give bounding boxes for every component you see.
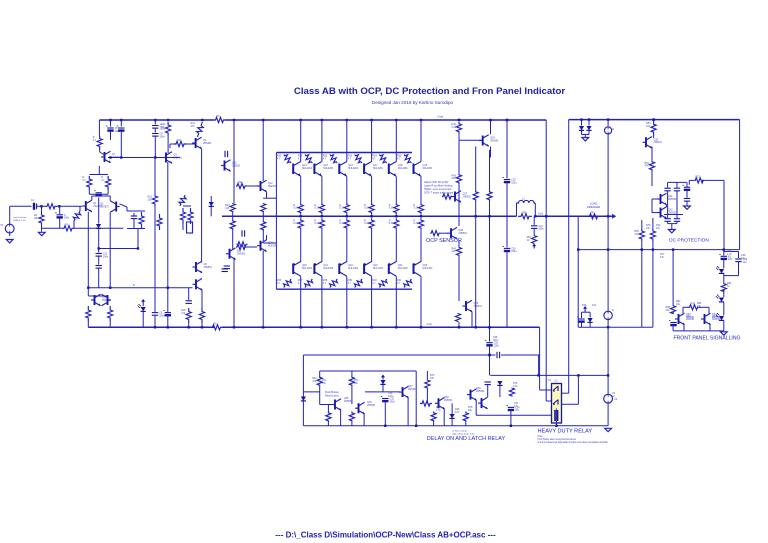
wire xyxy=(723,274,725,283)
junction at base line xyxy=(154,156,156,158)
voltage source V3 xyxy=(5,224,14,233)
wire xyxy=(651,171,653,187)
wire Q29 emitter to rail xyxy=(471,312,473,328)
resistor R58 xyxy=(666,305,676,314)
svg-text:DELAY ON AND LATCH RELAY: DELAY ON AND LATCH RELAY xyxy=(427,436,506,442)
wire R4 down xyxy=(73,221,75,228)
junction xyxy=(577,374,579,376)
svg-text:R59: R59 xyxy=(691,302,696,305)
wire xyxy=(487,385,489,397)
junction mid rail col2 xyxy=(321,215,323,217)
wire xyxy=(672,312,674,314)
svg-text:SINE(0 1 1k): SINE(0 1 1k) xyxy=(13,220,26,222)
wire col6 lower xyxy=(420,230,422,262)
capacitor C33 xyxy=(485,382,491,385)
capacitor C4 across pair xyxy=(94,191,102,196)
svg-text:2N5551: 2N5551 xyxy=(668,198,677,201)
wire tail stem xyxy=(98,166,100,175)
wire long net y355 left xyxy=(303,354,495,356)
resistor R24 xyxy=(230,220,235,229)
junction rail Q26 xyxy=(489,119,491,121)
wire into Q9 base xyxy=(191,287,193,289)
wire speaker node down xyxy=(577,216,579,249)
wire xyxy=(667,221,669,223)
wire relay coil feed xyxy=(476,414,552,416)
wire xyxy=(738,252,740,259)
wire DC box right edge xyxy=(739,120,741,250)
wire col2 lower xyxy=(321,230,323,262)
ground arrow cluster xyxy=(583,306,587,311)
wire x608 lower xyxy=(607,216,609,249)
LED D8 red xyxy=(716,266,724,273)
svg-text:100u: 100u xyxy=(511,181,517,184)
resistor Re5 top emitter xyxy=(389,203,399,215)
transistor Q6 mirror right xyxy=(101,294,111,306)
svg-text:12V: 12V xyxy=(728,258,733,261)
capacitor C28 latch xyxy=(669,321,677,326)
resistor R48 xyxy=(473,191,478,201)
transistor Q34 latch right xyxy=(701,313,721,325)
svg-text:R50: R50 xyxy=(522,211,527,214)
wire right drop of top rail lower xyxy=(545,216,547,401)
LED D10 xyxy=(716,313,724,320)
wire xyxy=(451,419,453,426)
diode D5 clamp xyxy=(586,126,591,130)
svg-text:2N5401: 2N5401 xyxy=(654,141,663,144)
LED D9 green xyxy=(716,295,724,302)
wire xyxy=(458,240,460,246)
junction rail R10 xyxy=(167,119,169,121)
wire col6 to mid rail xyxy=(420,214,422,216)
transistor Q12 driver NPN xyxy=(257,180,277,192)
junction xyxy=(154,326,156,328)
buzzer B1 element xyxy=(719,254,732,261)
junction xyxy=(458,119,460,121)
capacitor C25 xyxy=(664,219,670,222)
wire xyxy=(688,180,690,184)
transistor QN6 output NPN xyxy=(414,162,434,177)
svg-text:0.33: 0.33 xyxy=(414,207,419,210)
svg-text:Slight delay begin relay: Slight delay begin relay xyxy=(452,432,476,435)
wire C29 join xyxy=(724,275,739,277)
resistor Rb1 top base xyxy=(277,153,293,165)
junction xyxy=(137,247,139,249)
svg-text:0.33: 0.33 xyxy=(314,222,319,225)
wire xyxy=(327,405,329,412)
transistor QN2 output NPN xyxy=(314,162,334,177)
transistor Q33 latch left xyxy=(675,313,695,325)
wire to bottom rail xyxy=(458,322,460,327)
resistor R27 xyxy=(261,203,266,212)
wire col2 collector xyxy=(321,120,323,162)
wire R16 to rail xyxy=(87,322,89,327)
wire col6 collector xyxy=(420,120,422,162)
resistor Re5b bottom emitter xyxy=(389,218,399,230)
wire xyxy=(641,241,643,250)
transistor Q9 VAS darlington lower xyxy=(193,279,203,291)
junction bottom rail col3 xyxy=(346,326,348,328)
wire xyxy=(581,312,583,318)
svg-text:OCP: 7 amps maks output: OCP: 7 amps maks output xyxy=(424,192,454,195)
junction top rail col1 xyxy=(300,119,302,121)
wire V4 bottom xyxy=(607,403,609,426)
wire horizontal net lower xyxy=(88,287,190,289)
svg-text:Low Distortion: Low Distortion xyxy=(13,216,28,219)
resistor Rb5b bottom base xyxy=(372,277,388,289)
wire xyxy=(351,422,353,426)
wire right drop of top rail upper xyxy=(545,120,547,216)
wire D1 down xyxy=(98,229,100,249)
ground below R2 xyxy=(38,232,45,235)
wire into Q7 xyxy=(100,152,105,155)
wire C1 to R1 xyxy=(36,205,45,207)
wire inner box right xyxy=(723,180,725,249)
ground V4 xyxy=(605,428,612,431)
capacitor C26 xyxy=(674,219,680,222)
wire Q4 emitter down xyxy=(201,149,203,186)
wire to relay pin1 xyxy=(539,355,541,390)
wire x608 mid xyxy=(607,134,609,216)
wire top rail right segment xyxy=(225,119,546,121)
wire xyxy=(723,259,725,269)
svg-text:Designed Jan 2016 by Kartino S: Designed Jan 2016 by Kartino Surodipo xyxy=(372,100,454,105)
wire Q7 base rail xyxy=(108,157,180,159)
svg-text:R57: R57 xyxy=(695,175,700,178)
resistor R17 mirror xyxy=(108,306,113,322)
junction xyxy=(475,326,477,328)
wire bottom rail right xyxy=(222,326,540,328)
wire cap cluster top xyxy=(668,181,687,183)
svg-text:0.33: 0.33 xyxy=(293,222,298,225)
transistor QN4 output NPN xyxy=(364,162,384,177)
wire Q3 emitter column xyxy=(167,162,169,312)
wire x507 lower xyxy=(506,251,508,327)
capacitor C18 xyxy=(222,269,228,272)
wire bottom rail left xyxy=(88,326,214,328)
wire to Q26 base xyxy=(459,139,483,141)
resistor Rb3 top base xyxy=(323,153,339,165)
wire x459 down xyxy=(458,140,460,173)
wire delay box left edge xyxy=(302,355,304,426)
svg-text:MJL1302: MJL1302 xyxy=(423,267,434,270)
transistor Q38 delay xyxy=(435,398,445,410)
wire pair emitters xyxy=(666,205,668,207)
ground D6 xyxy=(684,206,691,209)
junction rail x234 xyxy=(233,119,235,121)
wire xyxy=(188,288,190,300)
junction rail cap1 xyxy=(109,119,111,121)
capacitor C10 xyxy=(163,311,171,316)
wire DC box left edge xyxy=(568,120,570,394)
capacitor C23 xyxy=(674,188,680,191)
wire col6 emitter down xyxy=(420,176,422,203)
junction xyxy=(545,215,547,217)
wire cluster top xyxy=(582,311,591,313)
capacitor C29 xyxy=(735,258,747,264)
resistor R52 speaker xyxy=(587,211,600,219)
junction xyxy=(262,326,264,328)
current source I2 xyxy=(604,311,612,319)
ground arrow delay xyxy=(381,375,385,380)
resistor Re3 top emitter xyxy=(339,203,349,215)
junction xyxy=(652,248,654,250)
svg-text:4.7k: 4.7k xyxy=(436,409,441,412)
transistor QP5 output PNP xyxy=(389,262,409,277)
svg-text:2N5551: 2N5551 xyxy=(459,232,468,235)
wire Q9 emitter down xyxy=(201,290,203,309)
svg-text:470: 470 xyxy=(181,312,186,315)
wire feedback lower xyxy=(154,206,156,313)
transistor Q26 xyxy=(479,135,499,147)
wire emitter join xyxy=(89,193,108,195)
wire Q3 collector xyxy=(169,144,171,148)
wire feedback node down xyxy=(154,158,156,195)
junction bottom rail col5 xyxy=(395,326,397,328)
resistor R15 tail xyxy=(139,212,144,228)
resistor R18 xyxy=(181,308,191,323)
capacitor C31 xyxy=(485,341,500,348)
capacitor C32 delay xyxy=(381,397,396,404)
junction mid rail col6 xyxy=(420,215,422,217)
transistor Q29 xyxy=(463,300,483,312)
junction xyxy=(510,425,512,427)
svg-text:2N5551: 2N5551 xyxy=(490,139,499,142)
capacitor C19 xyxy=(502,178,517,185)
wire Q2 collector up xyxy=(109,196,111,201)
wire down to R2 xyxy=(41,206,43,213)
resistor R68 xyxy=(431,412,436,423)
junction top rail col4 xyxy=(370,119,372,121)
junction base line xyxy=(120,156,122,158)
wire xyxy=(319,371,321,376)
wire col3 lower xyxy=(346,230,348,262)
wire Q26 emitter down xyxy=(490,147,492,158)
resistor R7 degeneration left xyxy=(82,176,92,190)
transistor QN1 output NPN xyxy=(293,162,313,177)
wire xyxy=(723,303,725,316)
wire col5 emitter down xyxy=(395,176,397,203)
junction top rail col6 xyxy=(420,119,422,121)
wire xyxy=(653,136,655,139)
wire x490 lower xyxy=(489,201,491,328)
svg-text:220: 220 xyxy=(452,177,457,180)
svg-text:2N5401: 2N5401 xyxy=(203,142,212,145)
resistor Re4 top emitter xyxy=(364,203,374,215)
inductor L1 output xyxy=(517,200,536,203)
wire L left leg xyxy=(516,203,518,216)
wire x475 upper xyxy=(475,147,477,192)
capacitor C9 feedback xyxy=(152,312,165,318)
wire to tail resistor bottom xyxy=(99,248,138,250)
svg-text:MJL1302: MJL1302 xyxy=(398,267,409,270)
wire cap cluster mid xyxy=(664,214,683,216)
wire to relay pin4 xyxy=(577,375,579,404)
resistor Rb6b bottom base xyxy=(397,277,413,289)
wire col3 collector xyxy=(346,120,348,162)
junction xyxy=(109,287,111,289)
transistor QP1 output PNP xyxy=(293,262,313,277)
svg-text:2N5551: 2N5551 xyxy=(204,266,213,269)
wire xyxy=(667,215,669,219)
diode D3 bias xyxy=(209,202,214,206)
wire xyxy=(676,182,678,187)
svg-text:4.7k: 4.7k xyxy=(727,253,732,256)
wire mirror tie xyxy=(88,295,107,297)
wire col1 to mid rail xyxy=(300,214,302,216)
capacitor C16 xyxy=(224,266,230,269)
junction rail x263 xyxy=(262,119,264,121)
wire xyxy=(465,422,467,426)
wire x507 mid xyxy=(506,182,508,247)
wire rail to C5 xyxy=(110,120,112,127)
wire drop x263 xyxy=(262,120,264,181)
svg-text:Out1: Out1 xyxy=(538,213,544,216)
wire V3 to ground xyxy=(9,233,11,236)
resistor R64 xyxy=(326,412,331,423)
wire C6 to base line xyxy=(120,131,122,158)
svg-text:100n: 100n xyxy=(160,135,166,138)
wire xyxy=(327,422,329,426)
wire ground net right xyxy=(74,227,123,229)
wire xyxy=(682,307,684,313)
resistor R4 base shunt xyxy=(72,210,82,223)
capacitor C5 rail xyxy=(106,126,121,133)
wire D3 to mid rail xyxy=(210,207,212,216)
wire to relay pin xyxy=(546,400,551,402)
svg-text:2N5401: 2N5401 xyxy=(474,305,483,308)
wire VAS net top xyxy=(183,205,191,207)
capacitor C12 xyxy=(96,266,102,269)
transistor Q10 xyxy=(221,160,241,172)
wire L right leg xyxy=(534,203,536,216)
wire col3 emitter down xyxy=(346,176,348,203)
ground zobel xyxy=(532,244,536,249)
wire to I1 xyxy=(607,120,609,126)
junction xyxy=(458,326,460,328)
resistor R28 xyxy=(261,220,266,231)
svg-text:0.33: 0.33 xyxy=(339,207,344,210)
wire collector join xyxy=(92,195,110,197)
wire tail to node xyxy=(137,229,139,249)
resistor R43 xyxy=(452,173,462,184)
resistor R11 to Q2 stage xyxy=(174,139,186,147)
wire col1 collector xyxy=(300,120,302,162)
transistor Q3 xyxy=(163,152,183,164)
transistor Q13 driver PNP xyxy=(257,240,277,252)
wire xyxy=(232,228,234,249)
wire xyxy=(641,220,643,229)
wire Q33 emitter xyxy=(683,325,685,331)
wire xyxy=(689,179,694,181)
svg-text:10u: 10u xyxy=(741,257,746,260)
svg-text:470: 470 xyxy=(191,125,196,128)
wire xyxy=(683,306,687,308)
diode D4 clamp xyxy=(579,126,584,130)
wire xyxy=(351,371,353,376)
junction xyxy=(167,326,169,328)
capacitor C30 on wire xyxy=(497,352,500,358)
svg-text:FRONT PANEL SIGNALLING: FRONT PANEL SIGNALLING xyxy=(674,336,741,342)
wire Q2 emitter to tail xyxy=(120,204,128,207)
svg-text:Q: Slow Charge: Q: Slow Charge xyxy=(452,430,468,433)
relay U1 heavy duty (yellow) xyxy=(552,384,562,424)
wire xyxy=(589,312,591,317)
svg-text:SPEAKER: SPEAKER xyxy=(587,205,600,209)
capacitor C22 xyxy=(664,188,670,191)
wire R17 to rail xyxy=(109,322,111,327)
capacitor C13 tail xyxy=(131,216,137,219)
transistor QN3 output NPN xyxy=(339,162,359,177)
svg-text:100u: 100u xyxy=(390,400,396,403)
junction mid rail x490 xyxy=(488,215,490,217)
resistor R12 from rail xyxy=(191,121,205,138)
wire R8 down xyxy=(107,190,109,194)
svg-text:0.33: 0.33 xyxy=(339,222,344,225)
wire xyxy=(667,182,669,187)
resistor R47 xyxy=(455,313,460,322)
wire R63 down xyxy=(351,387,353,405)
transistor Q37 delay xyxy=(399,386,409,398)
transistor Q32 DC sense lower xyxy=(657,207,677,219)
svg-text:Z12: Z12 xyxy=(592,304,597,307)
wire Q1 collector up xyxy=(91,196,93,200)
wire x507 upper xyxy=(506,120,508,178)
junction xyxy=(580,118,582,120)
wire xyxy=(676,221,678,223)
svg-text:2N5551: 2N5551 xyxy=(367,404,376,407)
svg-text:220u: 220u xyxy=(159,314,165,317)
junction DC rail xyxy=(652,118,654,120)
transistor Q5 mirror left xyxy=(91,294,111,306)
resistor R13 feedback xyxy=(148,195,158,206)
resistor R54 xyxy=(645,161,655,171)
wire D3 top xyxy=(210,196,212,202)
ground cluster xyxy=(668,230,675,233)
svg-text:10u: 10u xyxy=(743,261,748,264)
transistor QP2 output PNP xyxy=(314,262,334,277)
resistor Re2 top emitter xyxy=(314,203,324,215)
diode D7 zener xyxy=(588,318,593,322)
diode D11 on left edge xyxy=(301,397,306,401)
resistor Rb5 top base xyxy=(372,153,388,165)
wire C12 down xyxy=(98,268,100,288)
wire C5 tail xyxy=(110,131,112,140)
wire xyxy=(262,231,264,241)
junction rail R12 xyxy=(201,119,203,121)
junction xyxy=(723,248,725,250)
wire Q36 emitter to bottom xyxy=(363,414,365,426)
junction xyxy=(641,248,643,250)
wire DC box top rail xyxy=(569,119,740,121)
wire tail down xyxy=(126,207,128,211)
wire to D4 xyxy=(581,120,583,126)
wire output node to speaker xyxy=(535,215,614,217)
wire Q32 base xyxy=(652,212,657,214)
svg-text:0.33: 0.33 xyxy=(314,207,319,210)
wire bottom base bus xyxy=(276,288,412,290)
resistor R63 xyxy=(349,376,354,387)
junction xyxy=(488,354,490,356)
wire R62 to Q35 base xyxy=(319,387,321,405)
wire col5 lower xyxy=(395,230,397,262)
capacitor C7 decouple xyxy=(152,125,165,131)
wire Q13 emitter up xyxy=(266,235,268,240)
resistor R46 xyxy=(452,246,462,256)
resistor R70 xyxy=(509,388,514,397)
wire to D5 xyxy=(588,120,590,126)
wire x475 lower xyxy=(475,201,477,328)
trimmer box VAS bias xyxy=(187,222,193,233)
